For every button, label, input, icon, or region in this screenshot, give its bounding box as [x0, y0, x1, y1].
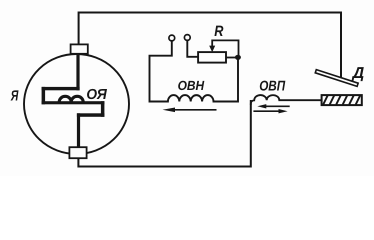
svg-text:Д: Д — [351, 65, 365, 82]
svg-text:ОВН: ОВН — [178, 78, 205, 93]
svg-text:R: R — [214, 23, 223, 40]
svg-text:ОЯ: ОЯ — [86, 87, 107, 103]
svg-text:ОВП: ОВП — [259, 79, 286, 95]
svg-text:Я: Я — [10, 88, 19, 104]
